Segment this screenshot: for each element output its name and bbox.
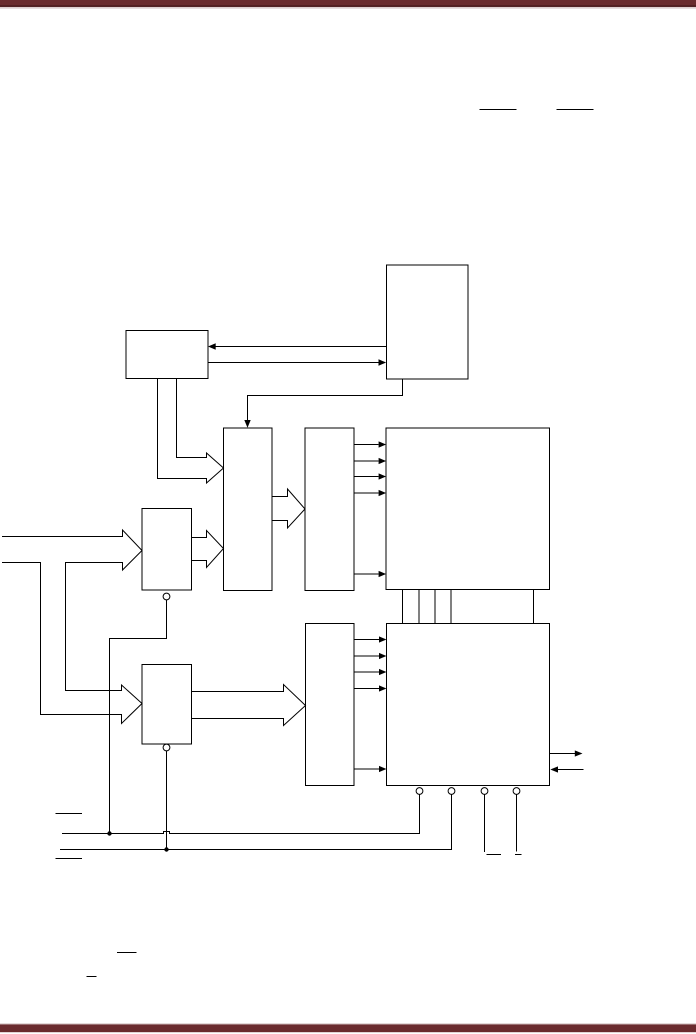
arrow: second decoder to I/O 1 [354, 639, 379, 641]
wire: memory to counter (arrow left) [216, 346, 387, 348]
fat arrow: instruction register to decoder [272, 489, 305, 528]
arrow: I/O data out (right) [550, 753, 576, 755]
arrow: decoder to control 3 [354, 476, 379, 478]
overbar label: pin 4 [515, 854, 522, 856]
arrow: second decoder to I/O 4 [354, 688, 379, 690]
wire: I/O pin 4 stub [516, 795, 518, 852]
wire: I/O pin 3 stub [484, 795, 486, 853]
bubble: lower latch clock inverter [163, 744, 170, 751]
bubble: latch clock inverter [163, 593, 170, 600]
bus line 1 (control to I/O) [402, 590, 404, 624]
footer bar [0, 1024, 696, 1032]
wire: bottom rail 1 with crossover hop [62, 795, 420, 834]
overbar label: rail 1 (left) [117, 952, 137, 954]
bus line 2 [418, 590, 420, 624]
wire: lower bubble down to bottom rail 2 [166, 751, 168, 850]
junction: rail 2 / lower latch wire [164, 847, 168, 851]
block: lower latch (lower left) [142, 665, 192, 745]
fat arrow: program counter down into instruction register [158, 379, 224, 484]
overbar label 2 (top) [557, 109, 594, 111]
arrow: second decoder to I/O 2 [354, 655, 379, 657]
overbar label: pin 3 [487, 854, 502, 856]
bus line 5 [533, 590, 535, 624]
bus line 4 [450, 590, 452, 624]
arrow: decoder to control 5 [354, 573, 379, 575]
wire: latch bubble down-left-down to bottom rail 1 [110, 600, 167, 834]
block: instruction decoder (tall box 2) [305, 428, 354, 591]
block: latch (mid left) [142, 509, 192, 591]
block: control unit (upper big box) [386, 428, 550, 590]
arrow: second decoder to I/O 5 [354, 768, 379, 770]
bubble: I/O pin 4 [513, 788, 520, 795]
block: instruction register (tall box 1) [224, 428, 273, 591]
fat arrow: external input into latch [2, 530, 142, 724]
fat arrow: latch to instruction register [192, 531, 224, 568]
arrow: decoder to control 4 [354, 492, 379, 494]
arrow: second decoder to I/O 3 [354, 671, 379, 673]
arrow: I/O data in (right) [558, 769, 584, 771]
bubble: I/O pin 1 [416, 788, 423, 795]
overbar label: rail 1 name [56, 813, 83, 815]
overbar label 1 (top) [480, 109, 517, 111]
fat arrow: lower latch to second decoder [192, 685, 306, 726]
junction: rail 1 / latch wire [107, 831, 111, 835]
bubble: I/O pin 3 [481, 788, 488, 795]
overbar label: rail 2 (left) [87, 976, 97, 978]
bus line 3 [434, 590, 436, 624]
block: I/O control (lower big box) [387, 624, 550, 786]
wire: memory bottom to instruction register top (arrow down) [248, 379, 403, 421]
block: program memory (top right) [387, 265, 469, 379]
block: second decoder (tall box 3) [306, 624, 355, 786]
wire: counter to memory (arrow right) [208, 362, 379, 364]
block: program counter (top left) [126, 331, 208, 379]
bubble: I/O pin 2 [448, 788, 455, 795]
arrow: decoder to control 2 [354, 460, 379, 462]
overbar label: rail 2 name [56, 858, 83, 860]
header bar [0, 0, 696, 7]
wire: bottom rail 2 [60, 795, 452, 850]
arrow: decoder to control 1 [354, 444, 379, 446]
